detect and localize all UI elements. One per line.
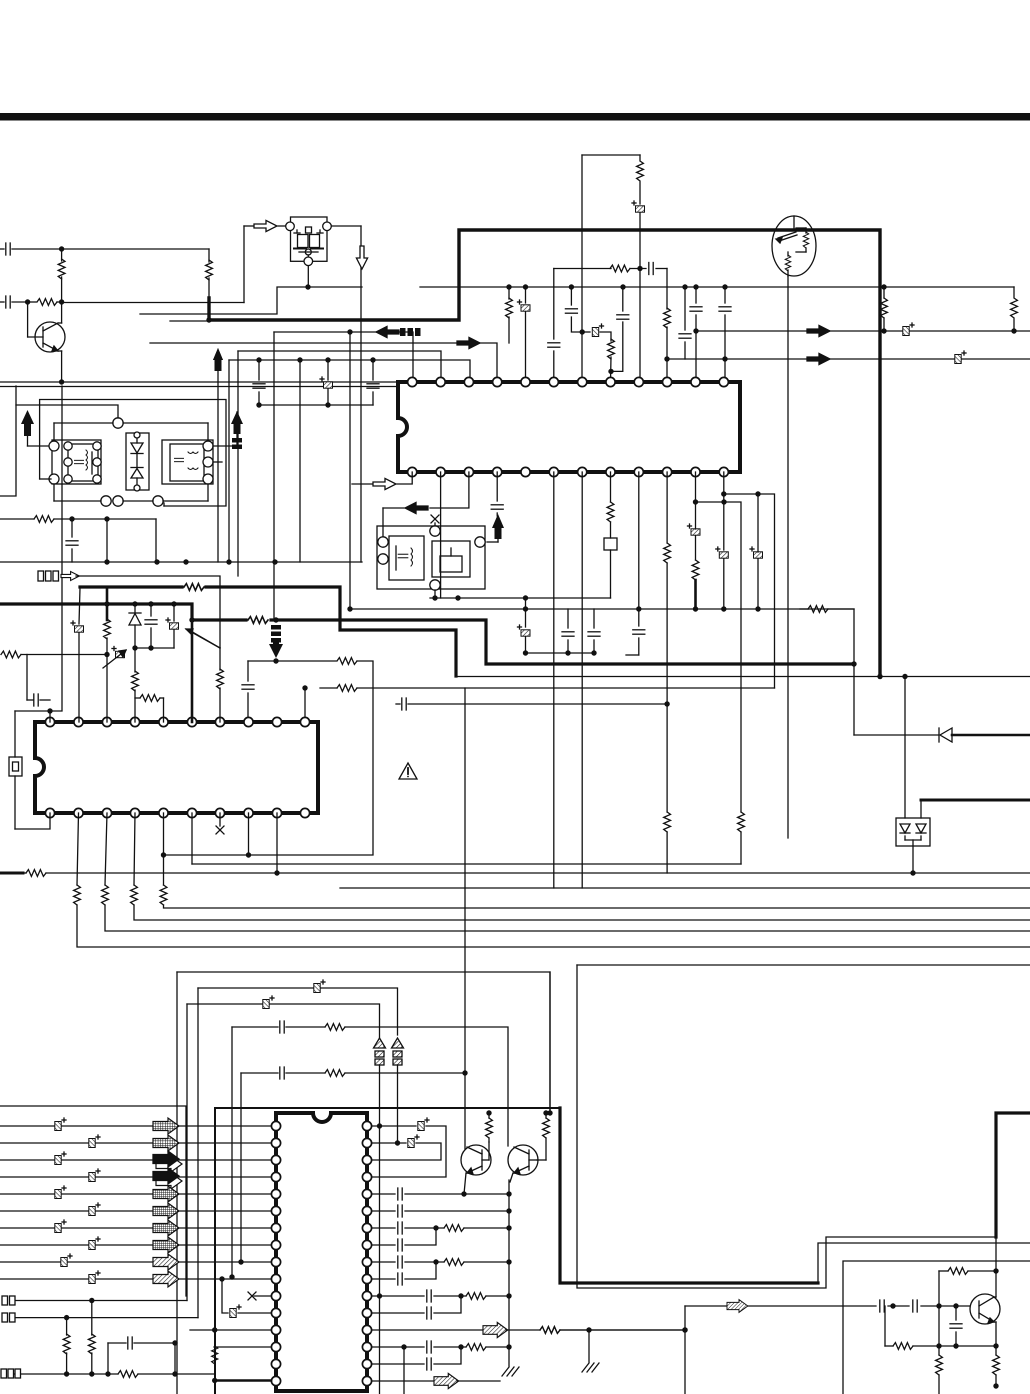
wire left edge xyxy=(0,386,118,496)
wire arrow net right xyxy=(150,343,497,382)
thick bus A xyxy=(80,587,456,676)
transistor Q4 xyxy=(508,1145,546,1182)
resistor R17 pin7t xyxy=(217,648,224,722)
wire y677 xyxy=(880,676,1030,678)
node xyxy=(272,559,277,564)
wire xyxy=(170,320,209,322)
capacitor C13 xyxy=(367,357,379,405)
thick feed wire xyxy=(209,230,880,677)
bus line 2 xyxy=(0,1135,271,1148)
node xyxy=(902,674,907,679)
pin8R xyxy=(372,1228,436,1251)
node xyxy=(1011,328,1016,333)
wire x107 xyxy=(106,519,108,562)
capacitor C14 pin4b xyxy=(491,472,503,516)
resistor R19 pin2b xyxy=(74,813,1030,947)
node xyxy=(851,661,856,666)
ceramic filter FL1 xyxy=(286,217,332,266)
solid arrow 4 xyxy=(156,1173,182,1189)
wire pin6b xyxy=(191,813,193,864)
wire y598 xyxy=(430,597,611,599)
electrolytic C12 xyxy=(320,357,333,407)
hatched arrow 1 xyxy=(153,1118,179,1134)
pin15L cap xyxy=(108,1337,178,1374)
node xyxy=(297,357,302,362)
electrolytic C4 xyxy=(903,323,914,336)
wire pin6t thick xyxy=(191,620,194,722)
resistor R25 xyxy=(212,1327,271,1394)
thick shield box xyxy=(215,1107,560,1109)
hatched up arrow 1 xyxy=(374,1038,386,1126)
resistor R31 xyxy=(993,1346,1000,1389)
box outline b1 xyxy=(177,972,550,1394)
node xyxy=(347,606,352,611)
wire y1328 xyxy=(506,1327,688,1334)
U3 right pins xyxy=(362,1121,371,1385)
solid arrow up w bars xyxy=(487,514,504,542)
capacitor C35 branch xyxy=(611,287,629,371)
ceramic filter FL2 xyxy=(377,526,485,590)
electrolytic C15 pin5b xyxy=(518,598,531,656)
node xyxy=(161,852,166,857)
node xyxy=(104,601,109,606)
wire FL1 bottom xyxy=(307,266,309,287)
IC U2 xyxy=(35,722,318,813)
wire block right xyxy=(213,412,237,462)
resistor R18 xyxy=(135,695,164,722)
wire y1004 xyxy=(187,1004,380,1301)
filter block FL4 xyxy=(162,440,213,484)
filter block FL3 xyxy=(49,440,101,484)
pin10R xyxy=(372,1262,436,1285)
node xyxy=(69,516,74,521)
node xyxy=(59,246,64,251)
wire x380b xyxy=(379,1296,381,1394)
wire pin1b xyxy=(352,472,412,484)
resistor R11 y609 right xyxy=(800,606,854,735)
resistor R10 xyxy=(738,812,745,864)
pin12R xyxy=(372,1296,461,1319)
node xyxy=(693,284,698,289)
open arrow w boxes xyxy=(38,571,79,581)
wire long AGC xyxy=(140,287,362,314)
node xyxy=(59,379,64,384)
node xyxy=(637,266,642,271)
wire Q2 emitter drop xyxy=(787,276,789,838)
wire out1 xyxy=(696,330,1030,332)
wire x404 xyxy=(403,1347,405,1394)
capacitor C20 xyxy=(396,698,667,710)
pin15R xyxy=(372,1347,461,1370)
node xyxy=(59,299,64,304)
wire y661 xyxy=(164,658,374,855)
node xyxy=(682,284,687,289)
resistor R6 xyxy=(637,155,644,204)
transistor Q3 xyxy=(461,1073,491,1194)
adjust arrow FL xyxy=(186,629,220,648)
node xyxy=(620,284,625,289)
resistor R13 in bus B xyxy=(248,617,268,624)
pin16R xyxy=(372,1380,433,1382)
solid arrow up xyxy=(213,348,223,562)
transistor Q5 xyxy=(970,1271,1000,1346)
wire x685 xyxy=(682,1306,687,1394)
bus line 3 xyxy=(0,1152,271,1165)
pin9R xyxy=(372,1256,512,1268)
bus line 4 xyxy=(0,1169,271,1182)
node xyxy=(226,559,231,564)
resistor R28 xyxy=(540,1327,685,1334)
wire bridge out xyxy=(910,846,915,876)
bus line 6 xyxy=(0,1203,271,1216)
resistor R21 pin4b xyxy=(131,813,1030,920)
digital transistor Q2 in ellipse xyxy=(772,216,816,276)
dense arrow 6 xyxy=(153,1203,179,1219)
wire y576 xyxy=(76,576,220,648)
bottom terminals xyxy=(54,484,208,506)
hatched arrow 10 xyxy=(153,1271,179,1287)
electrolytic C5 xyxy=(955,351,966,364)
electrolytic C9 pin5 xyxy=(518,287,531,382)
wire y875 xyxy=(0,870,1030,877)
box outline b2 xyxy=(198,988,398,1318)
resistor R1 xyxy=(58,249,65,302)
dual diode D3 xyxy=(126,432,149,491)
open arrow xyxy=(373,478,396,489)
resistor R24 xyxy=(88,1301,95,1377)
capacitor C6 xyxy=(690,287,702,382)
hatched arrow 2 xyxy=(153,1135,179,1151)
bridge rectifier D4 xyxy=(896,818,930,846)
U1 top pins xyxy=(408,377,729,386)
wire y519 xyxy=(0,516,156,562)
dense arrow 8 xyxy=(153,1237,179,1253)
resistor R9 pin10b xyxy=(664,472,671,873)
resistor R12 in bus A xyxy=(184,584,204,591)
resistor R14 xyxy=(320,685,465,1070)
pin5R cap xyxy=(372,1188,512,1200)
capacitor C8 xyxy=(679,287,691,359)
solid arrow left with bars xyxy=(376,326,421,337)
solid arrow 3 xyxy=(156,1156,182,1172)
wire pin10t xyxy=(304,688,306,722)
thick wire y800 xyxy=(921,799,1030,802)
top border band xyxy=(0,113,1030,121)
wire x885 xyxy=(884,1306,886,1346)
node xyxy=(523,595,528,600)
resistor R5 far right xyxy=(1011,287,1018,331)
node xyxy=(104,516,109,521)
capacitor C2 xyxy=(0,296,28,308)
electrolytic C25 pin2t xyxy=(71,588,84,722)
solid arrow left xyxy=(405,502,428,513)
pin12L wire xyxy=(219,1276,271,1317)
solid arrow out2 xyxy=(807,353,830,364)
wire left arrow net xyxy=(274,332,413,382)
electrolytic C30 xyxy=(263,996,274,1009)
thin box right xyxy=(577,965,1030,1288)
wire pin7b xyxy=(581,472,583,888)
wire y653 xyxy=(525,652,594,654)
resistor R4 xyxy=(506,287,513,343)
pin13R xyxy=(372,1329,482,1331)
resistor R16 pin4t xyxy=(132,648,139,722)
pin6R cap xyxy=(372,1205,512,1217)
U2 top pins xyxy=(45,717,309,726)
solid arrow up left xyxy=(21,410,52,446)
IC U1 xyxy=(398,382,740,472)
resistor R2 xyxy=(28,299,62,306)
pin13L xyxy=(190,1329,271,1331)
solid arrow out1 xyxy=(807,325,830,336)
node xyxy=(305,284,310,289)
capacitor C7 xyxy=(719,287,731,382)
capacitor C18 xyxy=(588,609,600,656)
capacitor C17 xyxy=(562,609,574,656)
node circle top xyxy=(54,418,208,441)
node xyxy=(506,284,511,289)
wire x350 xyxy=(349,332,351,609)
wire y888 xyxy=(340,887,1030,889)
electrolytic C21 pin12b xyxy=(716,472,729,612)
node xyxy=(664,356,669,361)
electrolytic C22 xyxy=(750,494,763,612)
open arrow xyxy=(254,220,277,231)
wire bridge top xyxy=(905,677,921,819)
resistor R32 xyxy=(881,284,888,333)
dense arrow 5 xyxy=(153,1186,179,1202)
ground xyxy=(582,1330,599,1372)
wire left loop xyxy=(40,400,226,507)
node xyxy=(347,329,352,334)
diode D1 xyxy=(854,728,1030,742)
wire xyxy=(61,248,209,250)
node xyxy=(693,328,698,333)
node xyxy=(273,617,278,622)
electrolytic C29 xyxy=(314,980,325,993)
pin11R xyxy=(372,1290,512,1302)
wire IF tune xyxy=(554,263,667,310)
node xyxy=(104,559,109,564)
wire y609 xyxy=(350,608,854,610)
wire x274 xyxy=(273,332,275,620)
solid arrow xyxy=(457,337,480,348)
electrolytic C34 resistor R33 xyxy=(582,324,614,382)
X mark xyxy=(431,515,439,526)
wire y688 branch xyxy=(465,687,775,689)
pin14R xyxy=(372,1341,512,1353)
capacitor C1 xyxy=(0,243,61,255)
wire xyxy=(229,360,470,562)
capacitor C31 xyxy=(950,1306,962,1349)
node xyxy=(523,284,528,289)
node xyxy=(273,658,278,663)
resistor R3 xyxy=(206,249,213,300)
resistor R30 xyxy=(936,1346,943,1394)
diode D2 xyxy=(129,601,141,650)
open arrow down xyxy=(356,246,367,269)
wire xyxy=(0,386,396,388)
thick bus B xyxy=(0,604,852,664)
hatched up arrow 2 xyxy=(392,1038,404,1143)
pin1R loop xyxy=(372,1118,446,1177)
capacitor C28 xyxy=(66,519,78,562)
electrolytic C3 xyxy=(632,201,645,382)
resistor R27 xyxy=(543,1110,550,1160)
dense arrow 7 xyxy=(153,1220,179,1236)
wire x550 xyxy=(547,972,552,1116)
resistor R15 pin3t xyxy=(106,587,109,620)
hatched arrow 9 xyxy=(153,1254,179,1270)
wire y502 xyxy=(696,499,742,812)
wire pin3b xyxy=(383,472,469,536)
wire y858 xyxy=(192,863,741,865)
resistor R23 xyxy=(63,1318,70,1377)
bus line 9 xyxy=(0,1254,271,1267)
wire xyxy=(299,360,301,562)
wire y1106 xyxy=(0,1106,186,1296)
capacitor C23 xyxy=(242,661,254,722)
bus line 7 xyxy=(0,1220,271,1233)
wire pin2b xyxy=(440,472,442,598)
U3 left pins xyxy=(271,1121,280,1385)
electrolytic C27 xyxy=(166,601,179,648)
wire y1027 xyxy=(229,1021,508,1280)
node xyxy=(722,284,727,289)
top vertical pair xyxy=(582,155,640,382)
capacitor C36 pin6 xyxy=(548,269,560,383)
capacitor C26 xyxy=(145,601,157,650)
node xyxy=(189,617,194,622)
wire x845 xyxy=(843,1261,1030,1394)
wire x380 xyxy=(379,1126,381,1296)
node xyxy=(302,685,307,690)
node xyxy=(183,559,188,564)
resistor R20 pin3b xyxy=(102,813,1030,931)
solid arrow up w bars2 xyxy=(231,411,243,449)
U1 bottom pins xyxy=(408,467,729,476)
bus line 10 xyxy=(0,1271,271,1284)
wire pin11b xyxy=(688,472,701,612)
bus line 1 xyxy=(0,1118,271,1131)
variable arrow xyxy=(103,647,126,669)
hatched arrow 13 xyxy=(483,1322,508,1337)
resistor R29 xyxy=(939,1268,999,1346)
node xyxy=(206,317,211,322)
pin2R loop xyxy=(372,1135,441,1160)
solid arrow down w bars xyxy=(269,625,283,658)
resistor R8 pin8b xyxy=(604,472,617,598)
node xyxy=(877,674,882,679)
warning triangle xyxy=(399,763,417,779)
wire FL1 left drop xyxy=(244,226,285,303)
capacitor C16 pin6b xyxy=(553,472,555,888)
node xyxy=(25,299,30,304)
wire x997 up xyxy=(995,1237,997,1271)
wire FL2 bottom xyxy=(432,590,437,601)
wire xyxy=(0,381,398,383)
hatched arrow q5 xyxy=(727,1300,748,1313)
wire y562 xyxy=(0,561,362,563)
wire y1374 xyxy=(1,1369,215,1378)
resistor R22 pin5b xyxy=(160,813,1030,908)
resistor R26 xyxy=(486,1110,493,1142)
node xyxy=(455,595,460,600)
crystal X1 xyxy=(9,386,62,829)
node xyxy=(722,356,727,361)
wire y648 xyxy=(135,647,174,649)
wire xyxy=(457,1380,500,1382)
wire xyxy=(62,302,244,304)
wire y494 xyxy=(724,491,775,688)
wire y1073 xyxy=(238,1067,467,1265)
capacitor C33 branch xyxy=(565,284,585,334)
transistor Q1 xyxy=(28,302,65,382)
node xyxy=(154,559,159,564)
capacitor C19 pin9b xyxy=(626,472,645,655)
bus line 5 xyxy=(0,1186,271,1199)
pin11L X xyxy=(2,1292,271,1305)
pin7R xyxy=(372,1222,512,1234)
pin14L xyxy=(214,1346,271,1348)
wire pin9b xyxy=(274,813,279,876)
IC U3 xyxy=(276,1113,367,1391)
wire y1301 xyxy=(685,1300,971,1312)
wire pin7b X xyxy=(216,813,224,834)
pin12L xyxy=(2,1313,198,1322)
wire y1346 xyxy=(885,1343,999,1350)
wire out2 xyxy=(667,358,1030,360)
U2 bottom pins xyxy=(45,808,309,817)
capacitor C11 xyxy=(253,357,265,407)
bus line 8 xyxy=(0,1237,271,1250)
ground rail xyxy=(502,1180,519,1376)
wire xyxy=(332,226,362,562)
resistor R7 xyxy=(664,308,671,382)
hatched arrow 16 xyxy=(434,1373,459,1388)
wire xyxy=(259,404,373,406)
capacitor C24 xyxy=(1,651,110,706)
wire pin8b xyxy=(248,813,250,855)
wire xyxy=(238,351,441,576)
